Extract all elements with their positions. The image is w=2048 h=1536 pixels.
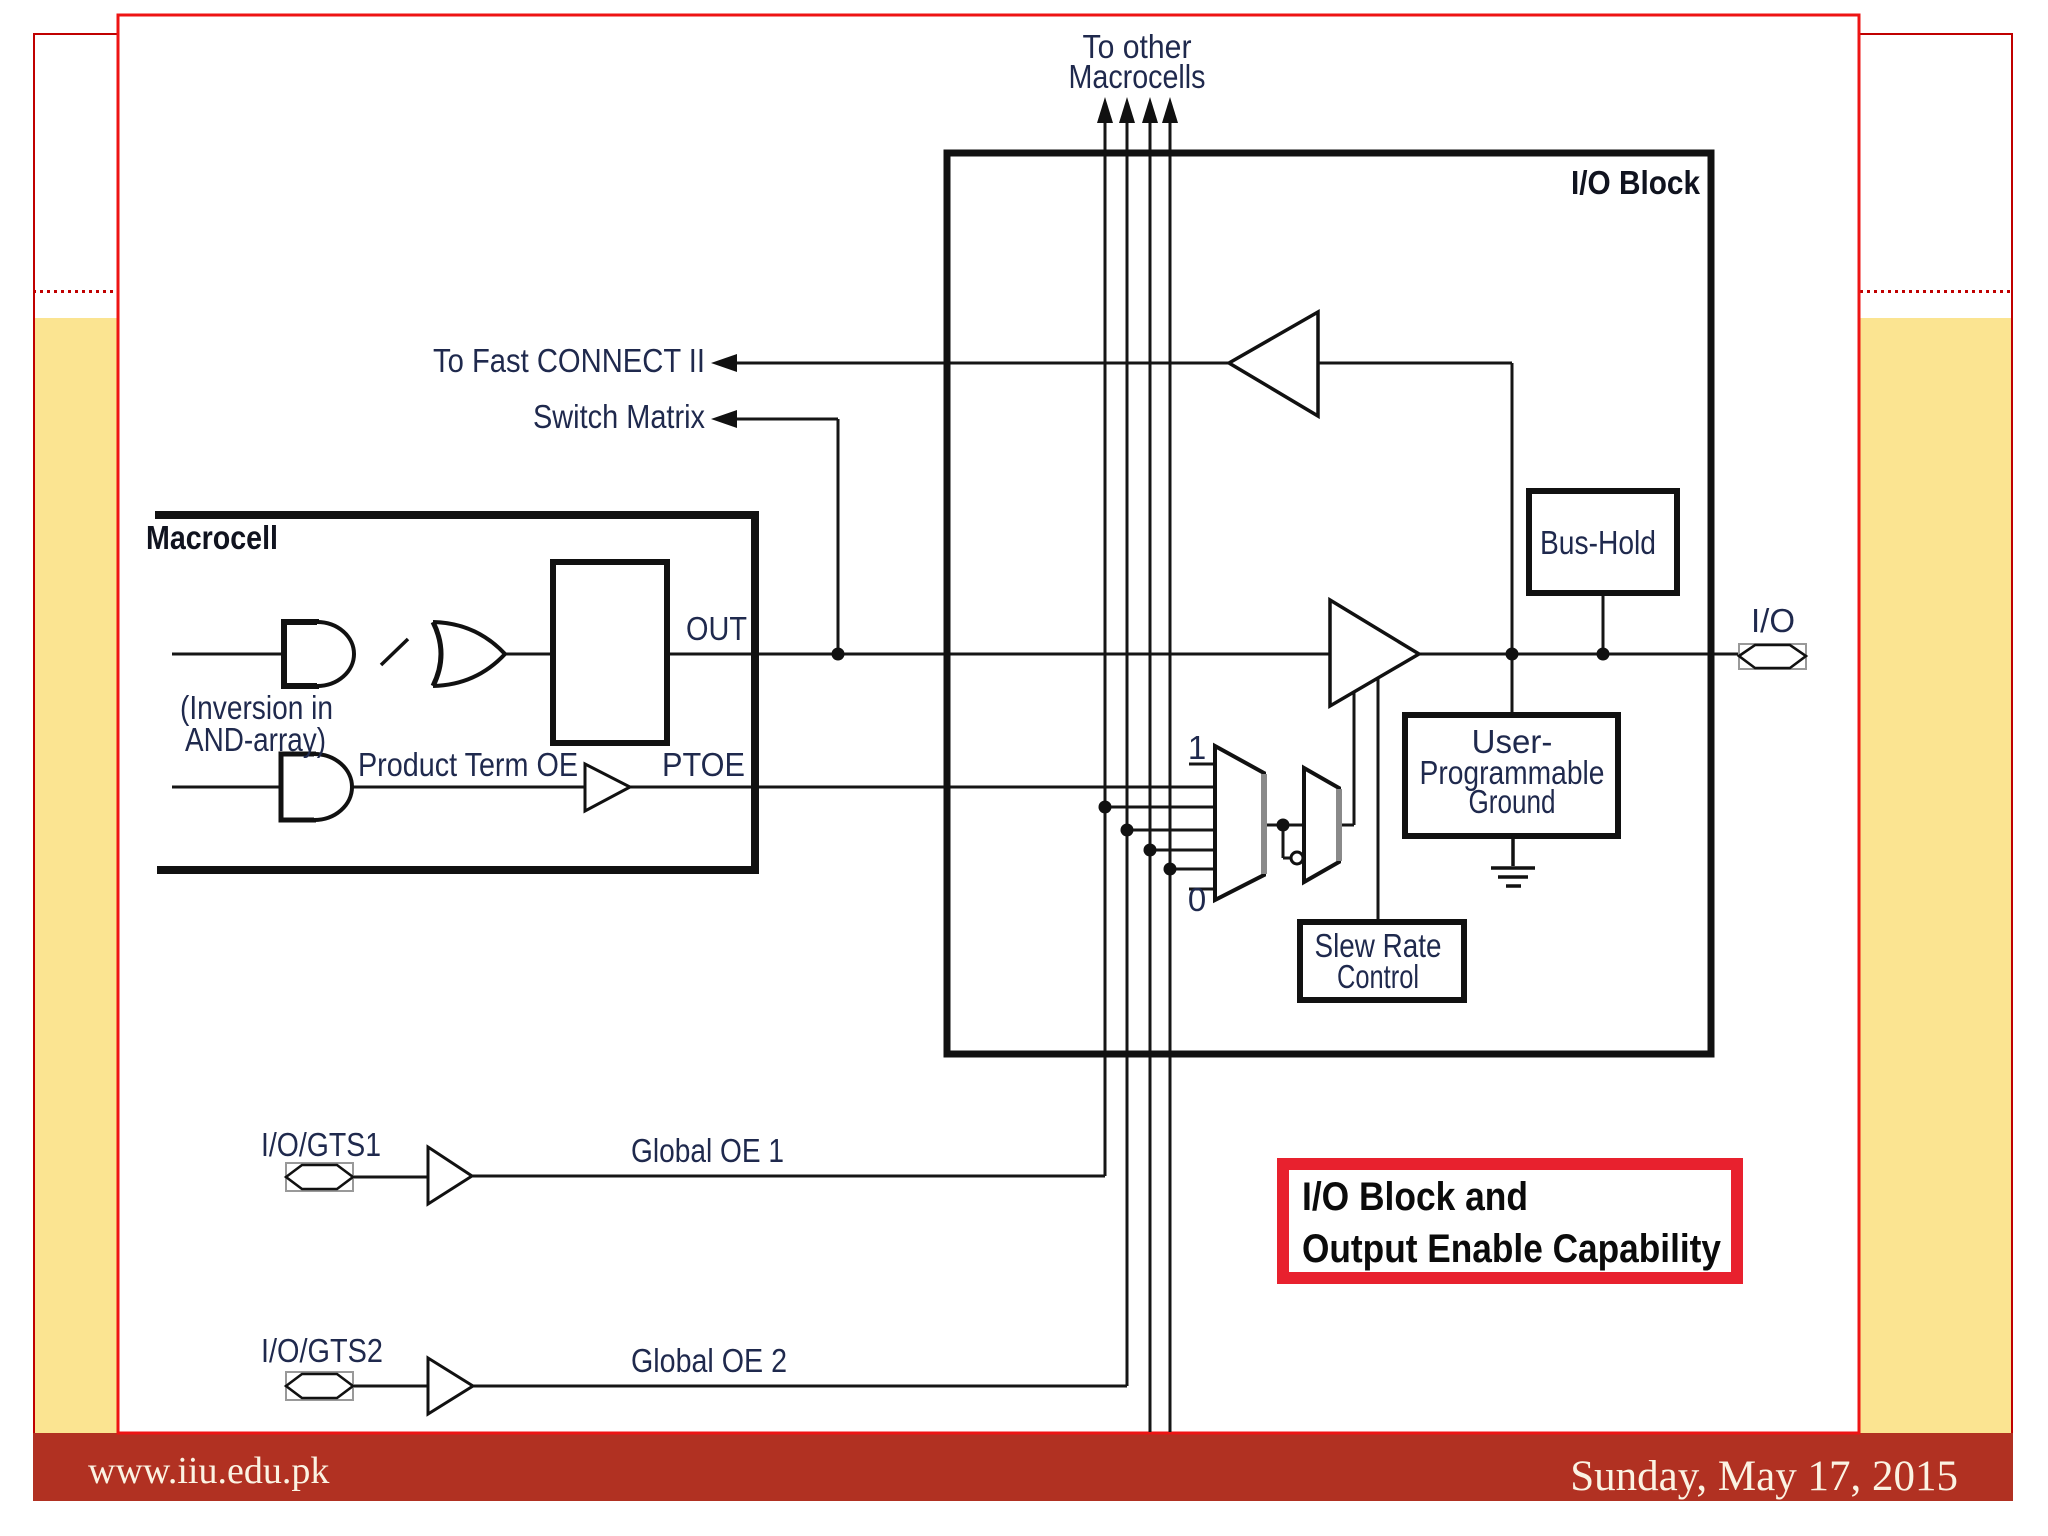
- node junction dots: [832, 648, 1610, 876]
- mux M1: [1215, 746, 1264, 900]
- wire mux1 output: [1264, 824, 1305, 827]
- User-Programmable Ground box: [1405, 715, 1618, 836]
- svg-text:Macrocells: Macrocells: [1069, 58, 1206, 95]
- Slew Rate Control box: [1300, 922, 1464, 1000]
- wire mux2 output: [1339, 824, 1354, 827]
- svg-text:PTOE: PTOE: [662, 746, 745, 783]
- mux M2: [1304, 768, 1339, 882]
- red callout box: [1283, 1164, 1737, 1278]
- buffer U2 (PTOE small triangle): [585, 764, 630, 811]
- Macrocell box (open left): [155, 511, 755, 874]
- Bus-Hold box: [1529, 491, 1677, 593]
- buffer U6 (GTS2): [428, 1358, 473, 1414]
- svg-text:I/O/GTS2: I/O/GTS2: [261, 1332, 383, 1369]
- wire OUT net (flip-flop to output buffer): [667, 653, 1330, 656]
- wire global OE 2: [473, 1385, 1127, 1388]
- svg-text:Macrocell: Macrocell: [146, 519, 278, 556]
- wire buffer output to I/O pad: [1419, 653, 1739, 656]
- svg-text:To Fast CONNECT II: To Fast CONNECT II: [433, 342, 705, 379]
- svg-text:Bus-Hold: Bus-Hold: [1540, 524, 1656, 561]
- I/O pad symbol GTS2: [286, 1372, 353, 1400]
- wire mux stub from OE line 2: [1127, 829, 1215, 832]
- svg-text:Global OE 2: Global OE 2: [631, 1342, 787, 1379]
- svg-text:Global OE 1: Global OE 1: [631, 1132, 784, 1169]
- diagram panel: [118, 15, 1859, 1433]
- svg-text:Ground: Ground: [1469, 783, 1556, 820]
- wire vertical OE line 1: [1104, 120, 1107, 1176]
- svg-text:OUT: OUT: [686, 610, 747, 647]
- svg-text:I/O Block: I/O Block: [1571, 164, 1701, 201]
- wire vertical line 3: [1149, 120, 1152, 1432]
- wire slew rate control: [1377, 676, 1380, 922]
- wire to fast connect (left of inverter): [736, 362, 1229, 365]
- wire mux stub from line 4: [1170, 868, 1215, 871]
- wire PTOE net to mux: [630, 786, 1215, 789]
- svg-text:AND-array): AND-array): [185, 721, 326, 758]
- svg-text:Product Term OE: Product Term OE: [358, 746, 578, 783]
- wire PTOE AND input: [172, 786, 280, 789]
- output buffer U4: [1330, 600, 1419, 706]
- wire inverter input horizontal: [1318, 362, 1512, 365]
- wire PTOE gate to buffer: [353, 786, 585, 789]
- AND gate A1: [284, 622, 354, 686]
- arrowhead switch matrix: [711, 410, 737, 428]
- I/O pad symbol GTS1: [286, 1163, 353, 1191]
- wire mux2 to buffer enable: [1353, 690, 1356, 825]
- wire mux input stub 0: [1189, 888, 1215, 891]
- wire inverted branch horizontal: [1283, 857, 1291, 860]
- inverter U3 (to fast connect): [1229, 312, 1318, 416]
- svg-text:Control: Control: [1337, 958, 1419, 995]
- wire OR output to flip-flop: [505, 653, 553, 656]
- wire switch-matrix horizontal: [736, 418, 838, 421]
- wire inverter feed vertical: [1511, 363, 1514, 715]
- svg-text:Sunday, May 17, 2015: Sunday, May 17, 2015: [1570, 1453, 1958, 1500]
- slide yellow band: [33, 318, 2013, 1433]
- wire bus-hold stub: [1602, 593, 1605, 654]
- ground symbol: [1491, 836, 1535, 886]
- slide dotted divider: [33, 290, 2013, 293]
- OR gate O1: [433, 622, 505, 686]
- arrowhead to fast connect: [711, 354, 737, 372]
- inversion bubble: [1291, 852, 1303, 864]
- svg-text:Output Enable Capability: Output Enable Capability: [1302, 1227, 1722, 1271]
- wire mux stub from line 3: [1150, 849, 1215, 852]
- label red callout text: [1302, 1175, 1722, 1271]
- wire mux input stub 1: [1189, 763, 1215, 766]
- svg-text:I/O/GTS1: I/O/GTS1: [261, 1126, 381, 1163]
- wire inverted branch vertical: [1282, 825, 1285, 858]
- svg-text:I/O Block and: I/O Block and: [1302, 1175, 1528, 1219]
- AND gate A2 (product term OE): [281, 754, 352, 820]
- wire global OE 1: [472, 1175, 1105, 1178]
- I/O Block box: [947, 153, 1711, 1054]
- wire mux stub from OE line 1: [1105, 806, 1215, 809]
- wire vertical OE line 2: [1126, 120, 1129, 1386]
- svg-text:0: 0: [1188, 881, 1206, 918]
- svg-text:I/O: I/O: [1751, 602, 1795, 639]
- svg-text:1: 1: [1188, 729, 1206, 766]
- svg-text:www.iiu.edu.pk: www.iiu.edu.pk: [88, 1450, 329, 1492]
- wire GTS2 pad to buffer: [353, 1385, 428, 1388]
- inversion slash: [381, 639, 408, 665]
- wire switch-matrix vertical: [837, 419, 840, 654]
- arrowheads to other macrocells: [711, 97, 1178, 428]
- flip-flop box: [553, 562, 667, 743]
- wire vertical line 4: [1169, 120, 1172, 1432]
- wire GTS1 pad to buffer: [353, 1176, 428, 1179]
- wire macrocell AND input: [172, 653, 283, 656]
- footer bar: [33, 1433, 2013, 1501]
- svg-text:Switch Matrix: Switch Matrix: [533, 398, 705, 435]
- I/O pad symbol right: [1739, 644, 1806, 669]
- buffer U5 (GTS1): [428, 1147, 472, 1204]
